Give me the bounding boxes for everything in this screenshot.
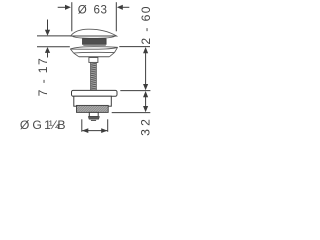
dimension 32 down arrow bbox=[143, 106, 148, 112]
flange cone right side bbox=[109, 53, 114, 57]
dimension 7-17 down arrow bbox=[45, 20, 50, 36]
dimension 2-60 extension line (flange plane) bbox=[119, 46, 150, 48]
body box bbox=[74, 96, 112, 106]
end nut bbox=[88, 117, 99, 120]
thread extension line left bbox=[81, 119, 83, 132]
cap skirt bottom lip bbox=[83, 44, 106, 46]
extension line at bottom flange top bbox=[120, 90, 150, 92]
dimension 7-17 line A (cap underside plane) bbox=[37, 35, 71, 37]
thread extension line right bbox=[107, 119, 109, 132]
svg-text:32: 32 bbox=[139, 116, 153, 136]
flange mid edge right diagonal bbox=[114, 47, 117, 52]
cap rim base line bbox=[71, 35, 117, 37]
dimension 7-17 up arrow bbox=[45, 47, 50, 58]
hatched insert bbox=[77, 105, 109, 112]
flange mid edge left diagonal bbox=[70, 49, 73, 53]
flange cone left side bbox=[74, 53, 79, 57]
dimension Ø 63 arrow left bbox=[58, 5, 71, 10]
rod end dash bbox=[91, 119, 96, 121]
threaded stem bbox=[91, 62, 97, 90]
svg-text:Ø 63: Ø 63 bbox=[78, 4, 108, 17]
flange cone base line bbox=[79, 56, 109, 58]
cap skirt bbox=[83, 39, 107, 45]
dimension 2-60 down arrow bbox=[143, 84, 148, 90]
dimension Ø 63 arrow right bbox=[117, 5, 129, 10]
cap rim underside arc bbox=[73, 37, 115, 39]
extension line at body bottom bbox=[112, 112, 151, 114]
svg-text:7 - 17: 7 - 17 bbox=[36, 57, 50, 97]
flange top rim (thin lens) bbox=[70, 47, 117, 50]
dimension 32 up arrow bbox=[143, 91, 148, 107]
nipple bbox=[89, 112, 98, 116]
bottom flange plate bbox=[72, 90, 118, 96]
flange mid edge arc bbox=[74, 51, 115, 54]
svg-text:ØG1¼B: ØG1¼B bbox=[20, 118, 66, 132]
extension line right of Ø 63 bbox=[115, 2, 117, 31]
svg-text:2 - 60: 2 - 60 bbox=[139, 5, 153, 45]
dimension 7-17 line B (flange top plane) bbox=[37, 46, 70, 48]
cap dome bbox=[71, 29, 117, 36]
extension line left of Ø 63 bbox=[71, 2, 73, 31]
stem collar bbox=[89, 58, 98, 63]
dimension 2-60 up arrow bbox=[143, 47, 148, 85]
thread dimension line with outward arrows bbox=[82, 128, 108, 133]
